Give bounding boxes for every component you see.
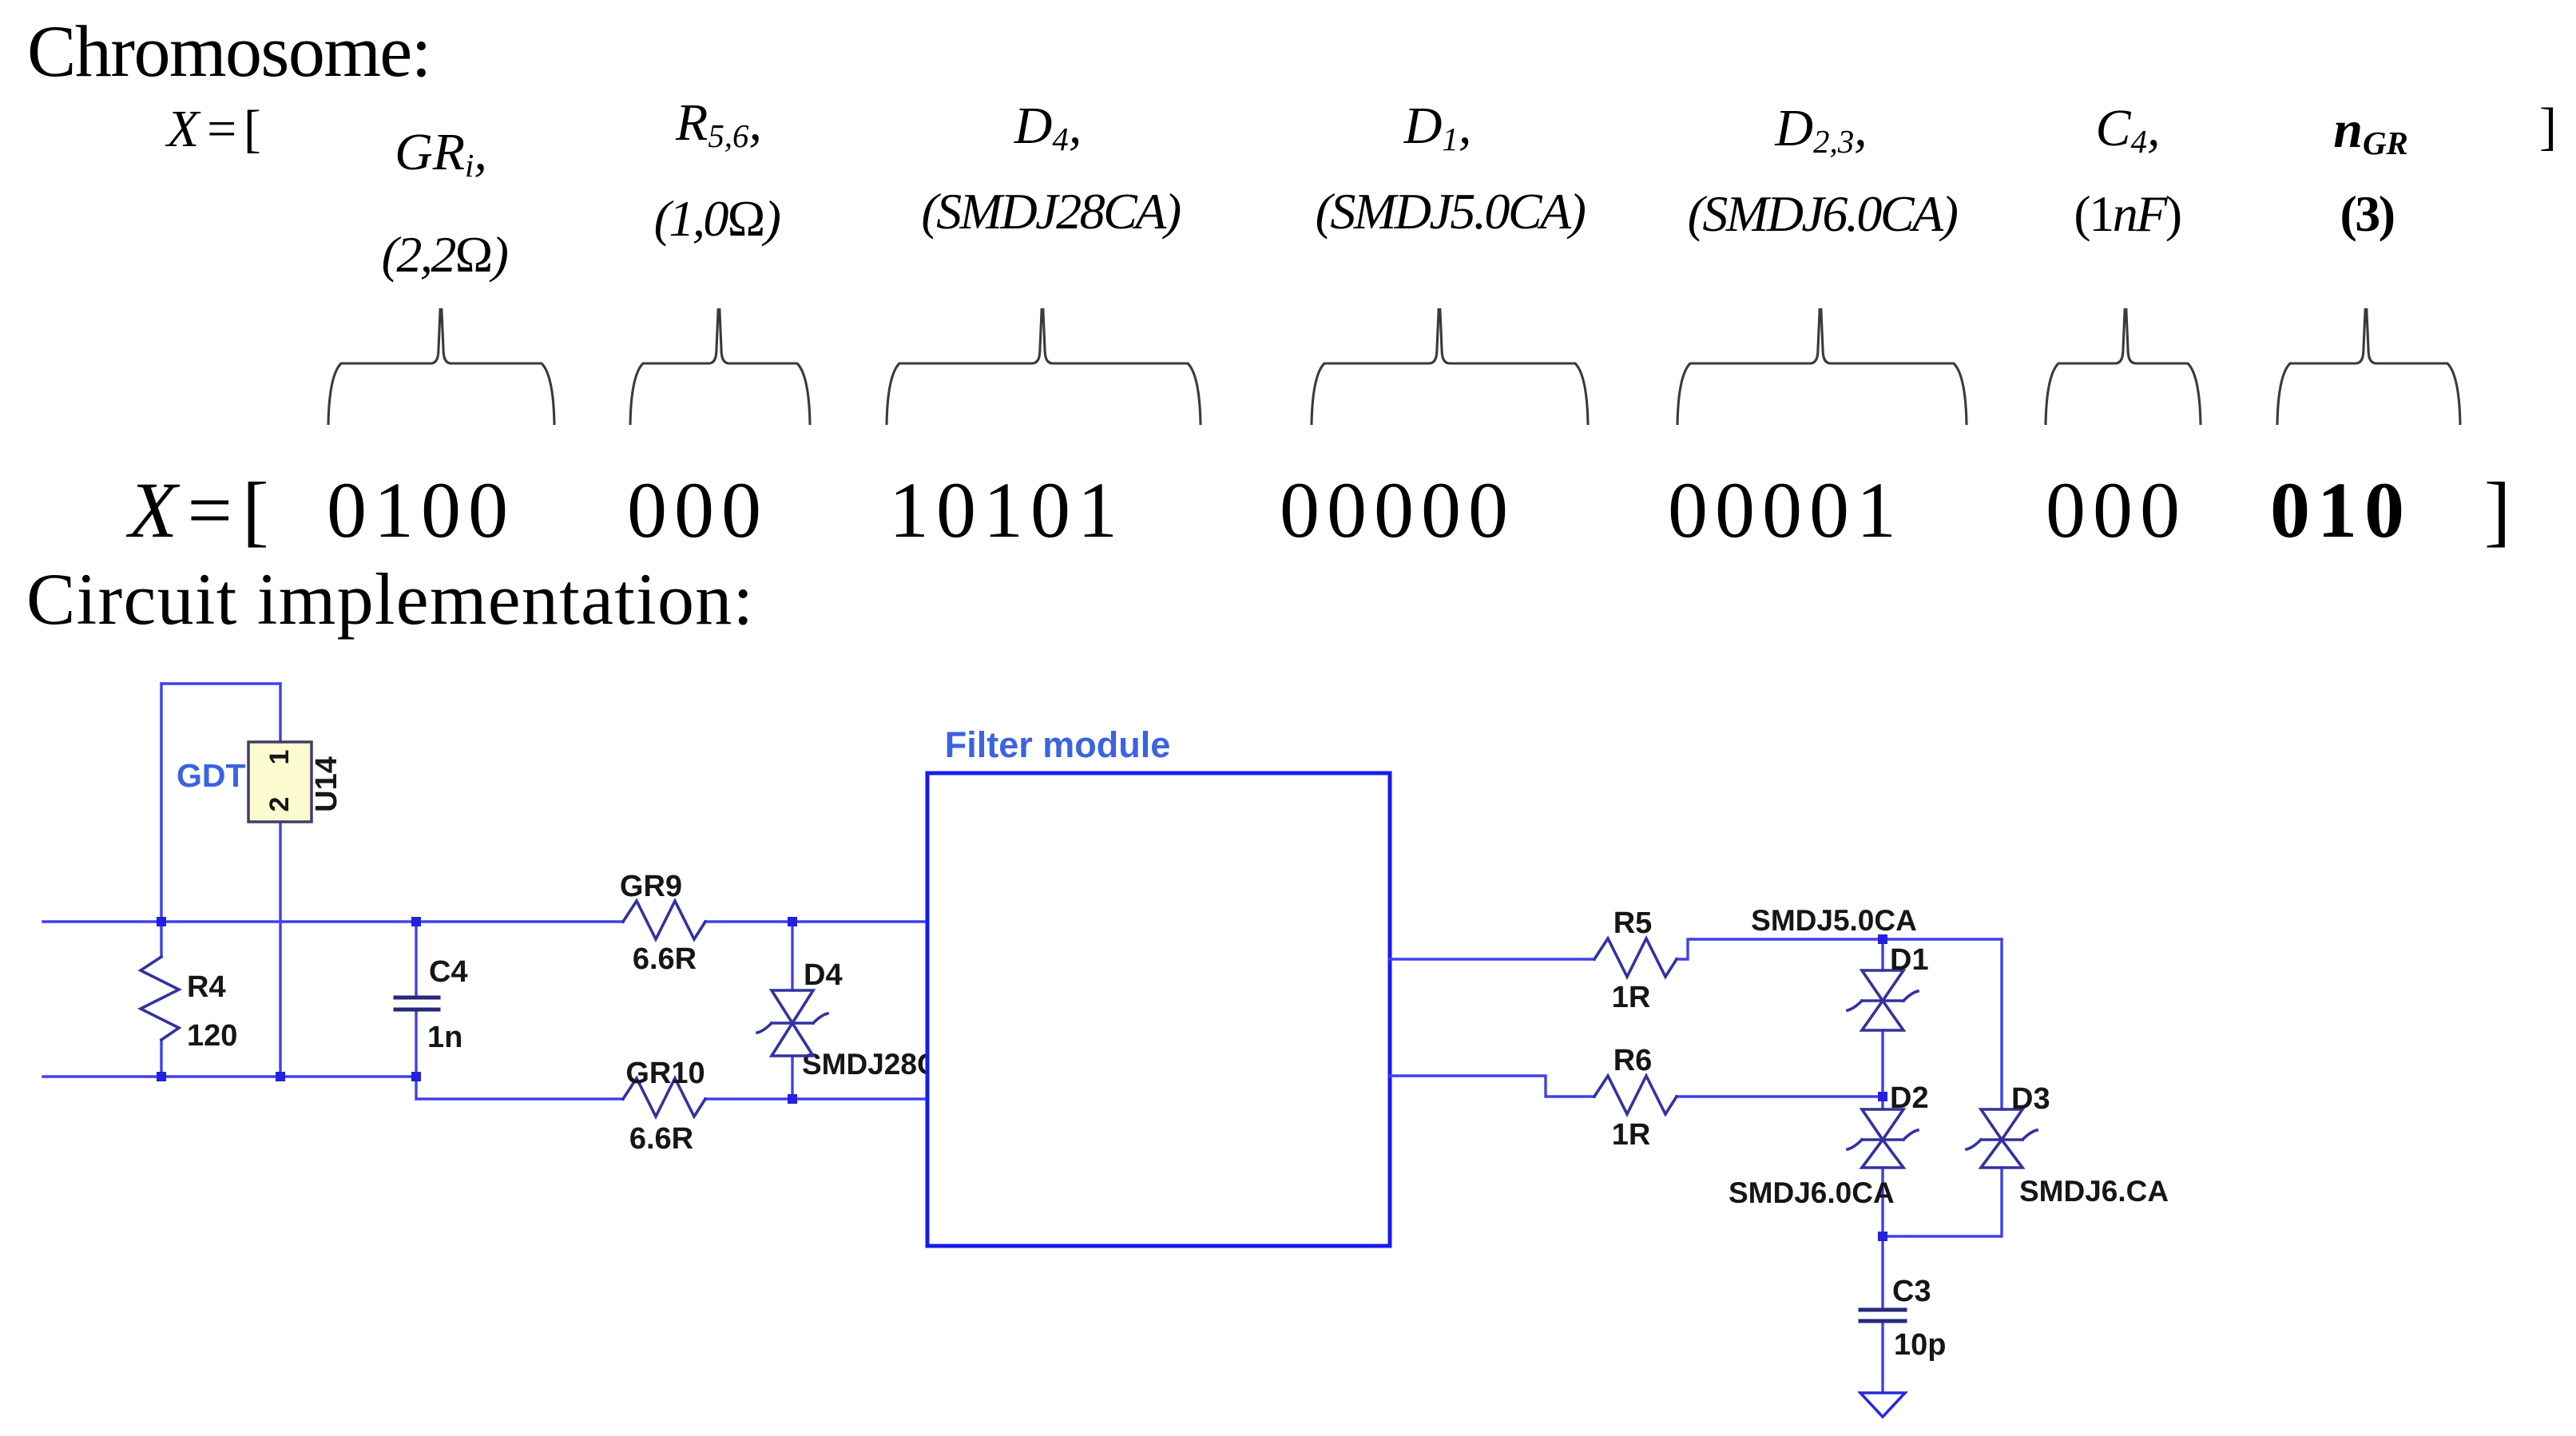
wire filter out bottom [1390,1076,1594,1097]
wire C3 top stub [1881,1236,1883,1308]
wire bottom step down [416,1077,623,1099]
wire C4 bottom stub [415,1011,417,1077]
node bottom bus / R4 [157,1072,166,1081]
row1 gene GR_i [395,126,487,179]
diode D3 TVS [1967,1109,2037,1168]
filter module box [927,773,1390,1246]
svg-text:R5: R5 [1613,906,1653,940]
row1 gene R_5,6 [676,97,762,149]
svg-text:D1: D1 [1890,943,1929,977]
wire GDT right leg lower [279,819,281,1077]
resistor R6 zigzag [1594,1076,1677,1114]
node top bus / C4 [411,917,421,926]
heading Chromosome: [27,14,431,88]
svg-text:1R: 1R [1612,1118,1651,1152]
brace gene GR [328,308,554,425]
wire bottom bus [43,1075,416,1077]
svg-text:D4: D4 [804,958,843,992]
wire C4 top stub [415,922,417,995]
wire D4 top stub [791,922,793,990]
wire filter out top [1390,958,1594,960]
wire D4 bottom stub [791,1056,793,1099]
svg-text:SMDJ6.CA: SMDJ6.CA [2019,1175,2169,1208]
diode D1 TVS [1848,970,1918,1030]
svg-text:6.6R: 6.6R [629,1122,693,1156]
wire D2 bottom stub [1881,1168,1883,1236]
junction node dots [157,917,1887,1241]
resistor GR9 zigzag [623,901,705,939]
svg-text:2: 2 [264,797,295,812]
wire top bus left [43,920,623,922]
node top bus / D4 [788,917,797,926]
svg-text:1: 1 [264,750,295,765]
node bottom bus / GDT right [276,1072,285,1081]
svg-text:6.6R: 6.6R [633,942,697,976]
wire C3 bottom stub [1881,1323,1883,1393]
wire D1 top stub [1881,939,1883,970]
svg-text:U14: U14 [310,756,343,812]
svg-text:D3: D3 [2011,1082,2050,1116]
wire R4 bottom stub [160,1040,162,1077]
resistor R4 zigzag [141,957,179,1040]
circuit text labels [177,724,2169,1362]
svg-text:D2: D2 [1890,1081,1929,1115]
resistor R5 zigzag [1594,938,1677,977]
wire right branch down to D3 [2000,939,2002,1109]
wire GR10 to filter [705,1097,927,1100]
resistor GR10 zigzag [623,1078,705,1117]
svg-text:R4: R4 [187,970,226,1004]
brace gene C4 [2046,308,2201,425]
diode D4 TVS [757,990,828,1056]
GDT body U14 [248,742,312,822]
ground symbol [1860,1393,1905,1417]
row1: X = [ [167,103,261,156]
capacitor C4 [395,998,439,1010]
svg-text:GR10: GR10 [625,1057,705,1090]
wire R6 to D2 node [1677,1095,1883,1097]
brace gene R5,6 [630,308,810,425]
svg-text:120: 120 [187,1019,237,1053]
row1 closing bracket [2539,101,2557,153]
diode D2 TVS [1848,1109,1918,1168]
wire R4 top stub [160,922,162,957]
wire top bus right [705,920,927,922]
svg-text:GR9: GR9 [620,870,682,903]
svg-text:SMDJ6.0CA: SMDJ6.0CA [1729,1176,1895,1209]
node C3 top [1878,1232,1887,1241]
svg-text:C3: C3 [1892,1275,1931,1308]
wire D1-D2 link [1881,1030,1883,1109]
capacitor C3 [1860,1310,1905,1321]
svg-text:1n: 1n [427,1021,462,1054]
row1 gene D_2,3 [1775,102,1867,155]
wire GDT loop top [161,682,280,684]
brace gene nGR [2277,308,2460,425]
brace gene D4 [887,308,1201,425]
row1 gene n_GR [2333,104,2408,157]
svg-text:C4: C4 [429,955,468,989]
wire GDT left leg [160,684,162,922]
brace gene D1 [1312,308,1588,425]
svg-text:R6: R6 [1613,1044,1653,1077]
row1 gene D_4 [1014,100,1082,153]
wire GDT right leg upper [279,684,281,747]
svg-text:GDT: GDT [177,757,246,794]
node D1 top [1878,934,1887,944]
wire bottom node to D3 [1883,1168,2002,1236]
svg-text:SMDJ5.0CA: SMDJ5.0CA [1751,904,1917,937]
svg-text:10p: 10p [1894,1328,1946,1362]
node D2 top [1878,1092,1887,1101]
heading Circuit implementation: [26,562,754,636]
row1 gene C_4 [2096,102,2161,155]
row2: binary chromosome [129,470,271,550]
node top bus / GDT left [157,917,166,926]
row1 gene D_1 [1404,100,1472,153]
node bottom bus / C4 [411,1072,421,1081]
wire R5 to node step up [1677,939,2002,959]
svg-text:1R: 1R [1612,981,1651,1014]
brace gene D2,3 [1677,308,1967,425]
node GR10 line / D4 [788,1094,797,1104]
svg-text:Filter module: Filter module [945,724,1171,765]
